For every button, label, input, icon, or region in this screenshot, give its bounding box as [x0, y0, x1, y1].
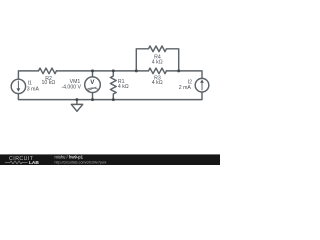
- current source I1 arrow: [17, 81, 19, 89]
- junction dot R1 bottom: [112, 98, 115, 101]
- svg-text:4 kΩ: 4 kΩ: [152, 59, 163, 65]
- voltmeter VM1 gauge: [87, 88, 98, 90]
- junction dot R1 top: [112, 69, 115, 72]
- voltmeter VM1 leads: [92, 71, 94, 100]
- current source I1 arrowhead: [17, 88, 21, 91]
- ground stub: [76, 100, 78, 105]
- ground triangle: [71, 104, 82, 111]
- svg-text:http://circuitlab.com/c/bzt4e7: http://circuitlab.com/c/bzt4e7pwx: [55, 160, 107, 164]
- svg-text:3 mA: 3 mA: [27, 86, 40, 92]
- banner background: [0, 154, 220, 165]
- junction dot ground: [75, 98, 78, 101]
- current source I2 arrowhead: [200, 80, 204, 83]
- svg-text:4 kΩ: 4 kΩ: [118, 84, 129, 90]
- wire R3 to I2 top: [166, 71, 202, 79]
- svg-text:mishu / hw9-p1: mishu / hw9-p1: [55, 155, 84, 160]
- junction dot VM1 top: [91, 69, 94, 72]
- current source I1 circle: [11, 79, 25, 93]
- current source I2 circle: [195, 78, 209, 92]
- junction dot R4 left: [135, 69, 138, 72]
- logo resistor zigzag: [5, 161, 28, 164]
- bottom rail with I1/I2 risers: [18, 92, 202, 100]
- svg-text:-4.000 V: -4.000 V: [61, 85, 81, 91]
- junction dot R4 right: [177, 69, 180, 72]
- svg-text:2 mA: 2 mA: [179, 85, 192, 91]
- current source I2 arrow: [201, 82, 203, 90]
- resistor R3 zigzag: [149, 68, 167, 74]
- svg-text:4 kΩ: 4 kΩ: [152, 80, 163, 86]
- resistor R1 vertical zigzag: [110, 71, 116, 100]
- resistor R2 zigzag: [39, 68, 57, 74]
- wire top-left (I1 top to R2): [18, 71, 38, 79]
- resistor R4 branch with stubs: [136, 46, 178, 71]
- svg-text:10 kΩ: 10 kΩ: [42, 80, 56, 86]
- junction dot VM1 bottom: [91, 98, 94, 101]
- svg-text:LAB: LAB: [29, 160, 39, 165]
- wire R2 to R3 (through VM1, R1, R4-left junctions): [56, 70, 148, 72]
- voltmeter VM1 circle: [85, 77, 101, 93]
